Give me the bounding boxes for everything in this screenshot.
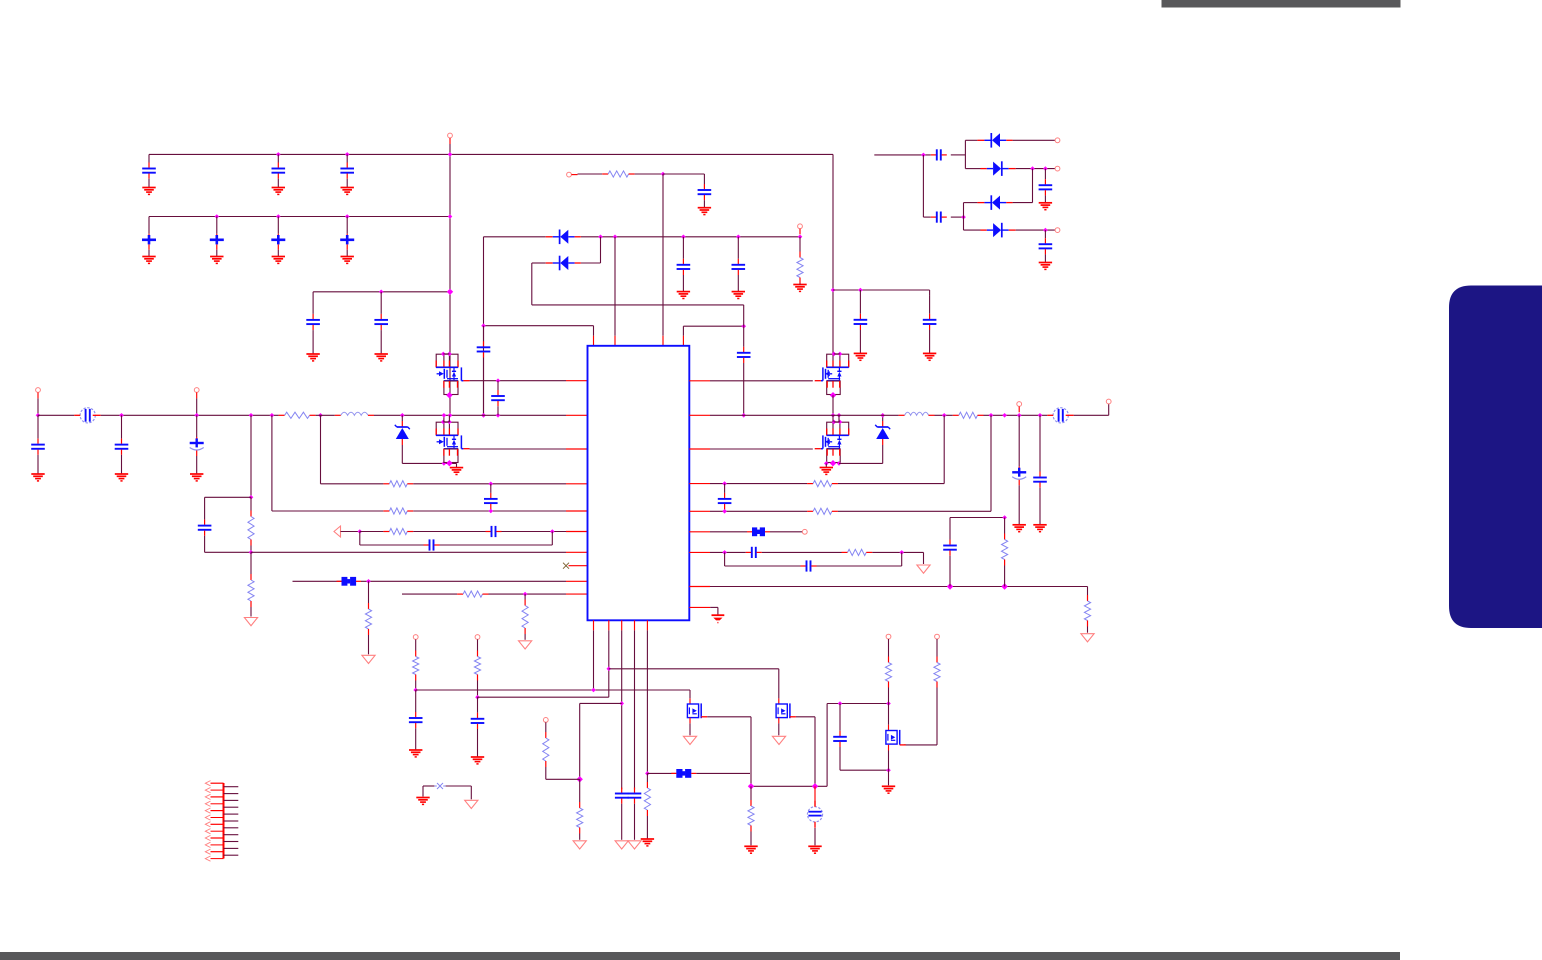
wire Q5 drain	[689, 723, 691, 735]
node J bus 38	[36, 413, 41, 418]
ground G_Q7	[882, 786, 895, 793]
wire n552r loop v	[724, 552, 726, 566]
resistor R_BUS1	[279, 412, 316, 418]
wire Q7 top	[888, 704, 890, 725]
fuse F1	[74, 408, 100, 423]
ground (open arrow) T_Q6	[772, 736, 785, 744]
capacitor C_CP2	[931, 212, 947, 223]
capacitor C_U2	[471, 697, 485, 757]
ground G_CCP4	[1039, 263, 1052, 270]
node J 251 b	[249, 550, 254, 555]
node J net291 right	[447, 289, 453, 295]
wire cp row1 left	[965, 139, 977, 141]
pin P_LDO	[567, 172, 572, 177]
node Q2 drain junction b	[447, 420, 452, 425]
ground (open arrow) T_JX	[465, 800, 478, 808]
connector J1	[205, 781, 238, 862]
node J237 b	[613, 235, 618, 240]
wire IC pin R1 stub	[689, 380, 710, 382]
wire rail703	[827, 703, 888, 705]
jumper block FB3	[671, 769, 696, 778]
wire rc bottom	[205, 551, 251, 553]
capacitor C_U1	[409, 690, 423, 750]
wire IC pin L9 stub	[566, 580, 588, 582]
wire cells h2	[546, 778, 580, 780]
wire bus row2	[149, 216, 450, 218]
ground G_P5	[641, 839, 654, 846]
ground G_C21	[142, 257, 155, 264]
wire n552r loop h1	[725, 565, 801, 567]
wire LDO corner down	[703, 174, 705, 184]
mosfet Q5	[687, 703, 751, 718]
resistor R_L1	[383, 481, 413, 487]
wire cp cap2 right	[951, 216, 964, 218]
wire cp v4	[1032, 169, 1034, 203]
node J cp feed	[921, 153, 926, 158]
wire gnd stub	[456, 463, 458, 467]
wire P_LDO lead	[572, 174, 578, 176]
node Q1 drain junction b	[447, 352, 452, 357]
fuse F2	[1047, 408, 1073, 423]
pin P_CELL	[543, 718, 548, 723]
wire lineA corner	[689, 690, 691, 698]
wire IC pin1 stub	[593, 336, 595, 346]
wire n531 h2	[413, 531, 485, 533]
wire IC pin R7 stub	[689, 551, 710, 553]
ground (open arrow) T_R3	[917, 565, 930, 573]
capacitor C_R6	[943, 522, 957, 587]
node J LDO tap	[661, 172, 666, 177]
wire net237 left seg	[484, 236, 546, 238]
resistor R_R4	[1084, 595, 1090, 633]
node J237 c	[681, 235, 686, 240]
wire n531 loop h1	[360, 544, 424, 546]
node J vref	[1002, 515, 1007, 520]
wire cp row3 left	[964, 202, 978, 204]
diode D_CP4	[981, 223, 1016, 238]
ground (open arrow) T_P3	[615, 841, 628, 849]
wire IC pin L7 stub	[566, 551, 588, 553]
pin P_BATT	[1106, 399, 1111, 404]
capacitor C32	[374, 292, 388, 354]
node J cells	[577, 776, 583, 782]
node J n531 b	[550, 529, 555, 534]
wire net291 horizontal	[313, 291, 450, 293]
ground G_CB1	[1013, 525, 1026, 532]
resistor R_U4	[934, 639, 940, 745]
wire cp row2 right	[1016, 168, 1055, 170]
node J n531	[358, 529, 363, 534]
inductor L1	[316, 412, 374, 415]
capacitor C31	[306, 292, 320, 354]
wire D2 left corner v	[531, 263, 533, 305]
wire n511r	[710, 510, 807, 512]
capacitor C_R5	[801, 560, 817, 571]
wire IC pin4 stub	[682, 336, 684, 346]
node J r786 b	[812, 783, 818, 789]
jumper block FB2	[747, 527, 770, 536]
wire n511 h1	[272, 510, 384, 512]
node J n586 a	[947, 583, 953, 589]
wire P_ACOK lead	[799, 229, 801, 235]
wire cells v	[579, 703, 581, 779]
capacitor (polarized) C21	[142, 217, 156, 257]
wire IC pin L5 stub	[566, 510, 588, 512]
ground G_CIN1	[115, 474, 128, 481]
wire IC CSSN stub	[689, 414, 710, 416]
wire lineC	[609, 668, 779, 670]
wire Q7 bot stub	[888, 745, 890, 751]
wire IC CSSP stub	[566, 414, 588, 416]
capacitor C_IN1	[115, 415, 129, 474]
node J VINd bus	[481, 413, 486, 418]
ground G_C42	[732, 292, 745, 299]
resistor R_R2	[807, 508, 838, 514]
node J gr a	[442, 461, 447, 466]
wire IC pin L8 stub	[569, 565, 588, 567]
wire n483r h2	[838, 483, 944, 485]
wire lineA	[416, 689, 690, 691]
wire pin2 riser	[614, 237, 616, 336]
wire n552r h3	[872, 551, 923, 553]
resistor R_CELL	[543, 722, 549, 779]
wire n586 corner	[1087, 587, 1089, 596]
ground G_RACOK	[793, 285, 806, 292]
wire IC pin L3 stub	[566, 448, 588, 450]
wire VIN top bus row1	[149, 153, 833, 155]
wire rc top	[205, 496, 251, 498]
net arrow A_CC	[334, 526, 341, 537]
wire batt gnd	[814, 828, 816, 845]
capacitor (polarized) C22	[210, 217, 224, 257]
zener diode ZD2	[875, 415, 890, 463]
node Q3 bottom junction	[830, 392, 836, 398]
capacitor C_RC	[198, 497, 212, 552]
wire Q4 gnd stub	[825, 463, 827, 467]
ground G_C41	[677, 292, 690, 299]
capacitor C_R3	[718, 484, 732, 512]
wire VIN drop to diode pair	[483, 237, 485, 415]
wire pb1	[593, 630, 595, 690]
wire IC pin L6 stub	[566, 531, 588, 533]
node J row1 b	[345, 152, 350, 157]
wire pb2 stub	[608, 620, 610, 630]
wire net237 mid seg	[581, 236, 800, 238]
node J cp2 b	[1043, 166, 1048, 171]
wire q7 src h	[904, 744, 937, 746]
ground G_C12	[272, 188, 285, 195]
wire VIN vertical main	[449, 144, 451, 415]
node J bus 498	[496, 413, 501, 418]
node Q4 drain junction b	[838, 420, 843, 425]
wire n483 h1	[321, 483, 384, 485]
node J rail290 b	[858, 288, 863, 293]
wire n511r riser	[990, 415, 992, 511]
wire n581 h2	[361, 580, 566, 582]
mosfet Q1	[436, 354, 470, 394]
ground G_BT1	[808, 846, 821, 853]
wire rail290 drop	[832, 154, 834, 354]
wire Q4 top tie	[834, 421, 840, 423]
pin P_ACOK	[798, 224, 803, 229]
node J n552r b	[899, 550, 904, 555]
wire cp feed	[874, 154, 931, 156]
wire pb4	[634, 630, 636, 789]
battery BT1	[807, 801, 822, 828]
ground (open arrow) T_RGD2	[362, 655, 375, 663]
node J row1 c	[448, 152, 453, 157]
capacitor C_R4	[746, 547, 762, 558]
node Q2 bottom junction	[446, 460, 452, 466]
wire jx mid a	[434, 785, 436, 787]
wire Q4 src net	[710, 448, 813, 450]
wire n594 h1	[402, 593, 457, 595]
node J n511 cap	[489, 509, 494, 514]
wire pb3	[621, 630, 623, 789]
node J u2	[475, 695, 480, 700]
wire n531r h2	[770, 531, 802, 533]
wire jx drop2	[470, 786, 472, 799]
resistor R_L3	[360, 528, 414, 534]
wire n594 h2	[489, 593, 567, 595]
wire Q3 bottom tie	[832, 395, 834, 415]
wire vref corner	[949, 518, 951, 522]
resistor R_BUS2	[953, 412, 984, 418]
resistor R_ACOK	[797, 237, 803, 284]
wire AC2 drop	[196, 398, 198, 415]
wire Q6 drain	[778, 723, 780, 735]
wire n581 h1	[293, 580, 342, 582]
node J n581	[366, 579, 371, 584]
diode D2	[546, 256, 581, 271]
capacitor C_LDO	[698, 184, 712, 208]
resistor R_P5	[644, 773, 650, 839]
pin P_U3	[886, 634, 891, 639]
resistor R_L2	[383, 508, 413, 514]
node J bus 402	[400, 413, 405, 418]
wire rail290 horizontal	[833, 289, 930, 291]
wire cells h	[580, 702, 622, 704]
wire IC pin L4 stub	[566, 483, 588, 485]
node J bus 251	[249, 413, 254, 418]
node Q4 drain junction a	[832, 420, 837, 425]
node J cp cap2	[961, 215, 966, 220]
wire Q4 tie a	[832, 415, 834, 422]
ground G_CIN0	[31, 474, 44, 481]
node J row1 a	[276, 152, 281, 157]
IC U1 main controller	[588, 346, 690, 621]
resistor R_R1	[807, 481, 838, 487]
capacitor C_P3	[615, 788, 629, 840]
ground G_M34	[820, 468, 833, 475]
node Q3 drain junction a	[832, 352, 837, 357]
wire cp row cap2 left	[923, 216, 930, 218]
wire rail786	[751, 785, 827, 787]
pin P_CP4	[1055, 228, 1060, 233]
wire n531r	[710, 531, 747, 533]
wire Q5 gate stub	[689, 698, 691, 704]
wire Q2 tie b	[448, 415, 450, 422]
wire n531 loop v1	[359, 532, 361, 546]
wire IC pin L10 stub	[566, 593, 588, 595]
wire n552r corner	[923, 552, 925, 564]
capacitor (polarized) C_B1	[1012, 415, 1026, 525]
pin P_SNS	[1017, 402, 1022, 407]
node J BSTR	[741, 324, 746, 329]
wire LDO to corner	[663, 173, 704, 175]
node J net291 mid	[379, 290, 384, 295]
wire Q2 top tie	[443, 421, 449, 423]
capacitor (polarized) C23	[271, 217, 285, 257]
wire bus right seg3	[984, 414, 1048, 416]
wire R_ACOK tail	[799, 284, 801, 285]
node J lineA p1	[591, 688, 596, 693]
node J Q4 gnd b	[831, 461, 836, 466]
wire Q6 drain stub	[778, 718, 780, 724]
resistor R_CD	[577, 779, 583, 840]
wire pb2	[608, 630, 610, 697]
node J row2 a	[215, 214, 220, 219]
resistor R_RC	[248, 497, 254, 552]
wire IC pin R9 stub	[689, 606, 710, 608]
capacitor C_CP1	[931, 149, 947, 160]
wire cp v1	[964, 140, 966, 168]
wire pb3 stub	[621, 620, 623, 630]
wire pin1 drop	[593, 326, 595, 336]
wire D2 right riser	[600, 237, 602, 263]
resistor R_SCL	[748, 786, 754, 845]
node J row2 c	[345, 214, 350, 219]
capacitor C_L1	[484, 484, 498, 511]
capacitor C11	[142, 154, 156, 187]
wire Q2 src net	[470, 448, 566, 450]
ground G_ICR	[712, 615, 725, 622]
jumper block FB1	[337, 577, 362, 586]
ground G_C13	[341, 188, 354, 195]
wire IC pin L1 stub	[566, 380, 588, 382]
node J busr 1019	[1017, 413, 1022, 418]
ground G_C22	[210, 257, 223, 264]
mosfet Q4	[815, 422, 849, 462]
wire cp row1 right	[1013, 139, 1056, 141]
capacitor C_BSTL	[477, 326, 491, 416]
ground (open arrow) T_CD	[573, 841, 586, 849]
wire r786 riser	[826, 704, 828, 787]
node J pb3	[619, 701, 624, 706]
wire n483r riser	[943, 415, 945, 483]
wire bus right seg2	[935, 414, 953, 416]
pin P_ID	[802, 529, 807, 534]
node J r703 b	[886, 701, 891, 706]
wire Q7 top stub	[888, 725, 890, 731]
wire P_VIN lead	[449, 138, 451, 144]
inductor L2	[899, 412, 935, 415]
diode D1	[546, 230, 581, 245]
ground (open arrow) T_Q5	[683, 736, 696, 744]
wire P_AC1 lead	[37, 392, 39, 398]
wire cp row2 left	[965, 168, 980, 170]
wire cp row4 left	[964, 229, 981, 231]
wire n552r	[710, 551, 746, 553]
ground G_C31	[306, 354, 319, 361]
wire IC pin R6 stub	[689, 531, 710, 533]
ground G_C11	[142, 188, 155, 195]
wire P_AC2 lead	[196, 392, 198, 398]
capacitor (polarized) C_IN2	[190, 415, 204, 474]
wire lineC corner	[778, 669, 780, 699]
wire pb4 stub	[634, 620, 636, 630]
resistor R_U3	[885, 639, 891, 704]
pin P_AC1	[36, 388, 41, 393]
node J n511r	[722, 509, 727, 514]
ground G_RSCL	[744, 846, 757, 853]
wire cp row3 right	[1013, 202, 1033, 204]
top gray banner	[1162, 0, 1401, 8]
node J Q1 src	[496, 378, 501, 383]
node J Q2 bus a	[442, 413, 447, 418]
node Q3 drain junction b	[838, 352, 843, 357]
wire bus seg3	[374, 414, 566, 416]
wire lineB	[478, 696, 609, 698]
capacitor C_BSTR	[737, 326, 751, 415]
blue side tab	[1449, 286, 1542, 629]
wire ntc h	[647, 772, 676, 774]
pin P_U1	[413, 635, 418, 640]
node J n594	[523, 592, 528, 597]
ground G_CIN2	[190, 474, 203, 481]
capacitor C_L2	[486, 526, 502, 537]
wire pin1 top net	[484, 325, 594, 327]
ground G_CCP3	[1039, 203, 1052, 210]
node J lineC p2	[607, 667, 612, 672]
wire bus right seg4	[1074, 414, 1109, 416]
pin P_CP1	[1055, 138, 1060, 143]
node J n586 b	[1001, 583, 1007, 589]
wire Q5 src drop	[750, 717, 752, 787]
node J bus 272	[270, 413, 275, 418]
capacitor C_R1	[854, 290, 868, 353]
node J bus 320	[318, 413, 323, 418]
wire R251 drop	[250, 415, 252, 497]
node J BSTL bus	[481, 413, 486, 418]
wire Q6 gate stub	[778, 698, 780, 704]
node J gr b	[447, 461, 452, 466]
node J BSTL	[481, 323, 486, 328]
wire Q1 src net	[470, 380, 566, 382]
ground G_JX	[416, 798, 429, 805]
wire cp mid	[951, 154, 966, 156]
ground (open arrow) T_P4	[628, 841, 641, 849]
resistor R_GD2	[365, 581, 371, 654]
ground G_CB2	[1033, 525, 1046, 532]
wire batt lead	[814, 786, 816, 806]
capacitor C_R2	[923, 296, 937, 354]
node Q1 bottom junction	[446, 392, 452, 398]
node J row2 d	[448, 214, 453, 219]
wire net305 corner down	[743, 305, 745, 326]
wire n552r h2	[762, 551, 842, 553]
capacitor C_Q7	[833, 704, 847, 771]
pin P_CP2	[1055, 166, 1060, 171]
ground (open arrow) T_R4	[1081, 634, 1094, 642]
wire net305 horizontal	[532, 304, 744, 306]
node J busr 944	[942, 413, 947, 418]
diode D_CP3	[977, 195, 1012, 210]
node J237 a	[598, 235, 603, 240]
wire n511r h2	[838, 510, 991, 512]
wire cp row4 right	[1016, 229, 1055, 231]
node J cp2 a	[1030, 166, 1035, 171]
